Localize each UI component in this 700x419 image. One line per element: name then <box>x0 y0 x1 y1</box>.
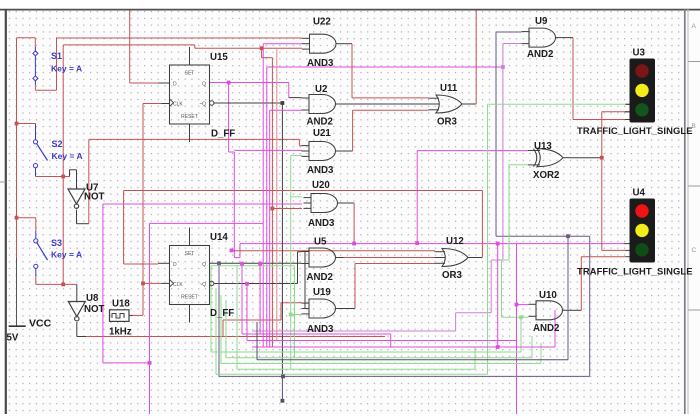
svg-text:RESET: RESET <box>181 114 198 120</box>
svg-text:U10: U10 <box>539 290 557 301</box>
svg-text:Q: Q <box>202 81 206 87</box>
svg-text:U12: U12 <box>446 236 464 247</box>
svg-text:TRAFFIC_LIGHT_SINGLE: TRAFFIC_LIGHT_SINGLE <box>577 266 693 277</box>
svg-text:AND3: AND3 <box>308 218 335 229</box>
svg-text:1kHz: 1kHz <box>109 327 132 338</box>
svg-text:CLK: CLK <box>173 282 183 288</box>
svg-text:Key = A: Key = A <box>52 151 83 161</box>
svg-text:AND3: AND3 <box>307 58 334 69</box>
svg-text:AND2: AND2 <box>307 272 333 283</box>
svg-text:SET: SET <box>185 71 195 77</box>
svg-text:U5: U5 <box>314 237 327 248</box>
svg-text:Key = A: Key = A <box>51 64 82 74</box>
svg-text:AND2: AND2 <box>307 117 333 128</box>
svg-text:XOR2: XOR2 <box>533 170 559 181</box>
svg-text:NOT: NOT <box>84 304 105 315</box>
svg-text:U20: U20 <box>312 180 330 191</box>
svg-text:AND3: AND3 <box>307 165 334 176</box>
svg-text:U18: U18 <box>112 299 130 310</box>
svg-text:U14: U14 <box>210 232 228 243</box>
svg-text:U9: U9 <box>535 16 548 27</box>
svg-text:U13: U13 <box>534 141 552 152</box>
svg-text:5V: 5V <box>7 333 19 344</box>
svg-text:S2: S2 <box>52 139 63 149</box>
svg-text:U15: U15 <box>210 52 228 63</box>
svg-text:AND2: AND2 <box>533 323 559 334</box>
svg-text:U19: U19 <box>313 287 331 298</box>
svg-text:U2: U2 <box>315 84 327 95</box>
svg-text:U4: U4 <box>633 188 646 199</box>
svg-text:A: A <box>692 23 697 30</box>
svg-text:U8: U8 <box>86 293 99 304</box>
svg-text:S1: S1 <box>51 51 62 61</box>
svg-text:AND2: AND2 <box>527 49 553 60</box>
svg-text:~Q: ~Q <box>199 102 206 108</box>
svg-text:C: C <box>692 247 697 254</box>
svg-text:VCC: VCC <box>29 318 52 330</box>
svg-text:D: D <box>173 262 177 268</box>
svg-text:U3: U3 <box>633 48 646 59</box>
svg-text:D_FF: D_FF <box>211 129 235 140</box>
svg-text:S3: S3 <box>51 238 62 248</box>
svg-text:B: B <box>692 123 696 130</box>
svg-text:~Q: ~Q <box>199 282 206 288</box>
svg-text:SET: SET <box>185 251 195 257</box>
svg-text:OR3: OR3 <box>442 270 463 281</box>
svg-text:U21: U21 <box>313 128 331 139</box>
svg-text:Key = A: Key = A <box>51 250 82 260</box>
svg-text:OR3: OR3 <box>437 117 458 128</box>
svg-text:AND3: AND3 <box>307 324 334 335</box>
svg-text:D: D <box>173 81 177 87</box>
svg-text:Q: Q <box>202 262 206 268</box>
svg-text:D_FF: D_FF <box>210 308 234 319</box>
svg-text:RESET: RESET <box>181 295 198 301</box>
svg-text:CLK: CLK <box>173 102 183 108</box>
svg-text:U22: U22 <box>313 17 331 28</box>
svg-text:TRAFFIC_LIGHT_SINGLE: TRAFFIC_LIGHT_SINGLE <box>577 125 693 136</box>
svg-text:NOT: NOT <box>84 192 105 203</box>
svg-text:U11: U11 <box>440 83 458 94</box>
